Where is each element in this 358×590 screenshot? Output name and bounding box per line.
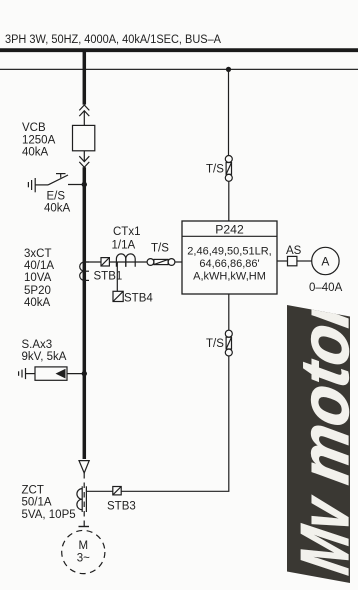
svg-text:VCB: VCB (22, 122, 46, 134)
arrow (filled) (56, 369, 66, 379)
wire (228, 181, 230, 221)
selector switch AS (288, 256, 297, 265)
terminal STB4 (113, 291, 123, 301)
wire: STB3 to ZCT (86, 490, 112, 492)
CT CTx1 (coil humps) (116, 254, 135, 267)
svg-text:2,46,49,50,51LR,: 2,46,49,50,51LR, (187, 246, 271, 258)
cable head (open triangle) (79, 461, 89, 473)
blade (48, 175, 68, 185)
svg-text:T/S: T/S (151, 243, 169, 255)
node: E/S junction (82, 182, 87, 187)
wire (83, 111, 85, 126)
test switch T/S (lower, vertical) (225, 330, 232, 356)
svg-text:10VA: 10VA (24, 272, 52, 284)
lower thin bus line (0, 68, 358, 70)
wire: main feeder (thick) (83, 167, 87, 459)
ground bars (27, 182, 29, 187)
svg-text:A,kWH,kW,HM: A,kWH,kW,HM (193, 271, 266, 283)
svg-text:3xCT: 3xCT (24, 248, 51, 260)
svg-text:3~: 3~ (77, 553, 90, 565)
node: arrester junction (82, 371, 87, 376)
withdrawable contact upper (chevrons up) (79, 105, 89, 116)
svg-text:50/1A: 50/1A (22, 497, 52, 509)
wire: down then left to STB3 (121, 356, 229, 491)
bus BUS-A (0, 48, 358, 52)
svg-text:40kA: 40kA (24, 297, 51, 309)
svg-text:T/S: T/S (206, 164, 224, 176)
wire (26, 373, 36, 375)
3xCT labels (24, 248, 54, 309)
wire: P242 bottom drop (228, 294, 230, 330)
ZCT arcs (77, 489, 82, 510)
node: metering tap junction (226, 67, 231, 72)
svg-text:40/1A: 40/1A (24, 260, 54, 272)
circuit breaker VCB box (73, 125, 95, 150)
wire: CT secondary (86, 261, 147, 263)
svg-text:T/S: T/S (206, 338, 224, 350)
wire (83, 151, 85, 162)
relay P242 box (182, 221, 277, 294)
earth switch E/S (28, 174, 84, 193)
svg-text:M: M (79, 540, 89, 552)
arrester box (35, 367, 67, 380)
CT 3xCT (arcs on main line) (80, 262, 89, 280)
surge arrester labels (22, 339, 67, 363)
svg-text:S.Ax3: S.Ax3 (22, 339, 53, 351)
VCB labels (22, 122, 56, 159)
svg-text:AS: AS (286, 245, 302, 257)
wire: VT/metering drop (228, 69, 230, 155)
terminal STB3 (113, 487, 121, 495)
svg-text:40kA: 40kA (44, 203, 71, 215)
svg-text:0–40A: 0–40A (309, 282, 343, 294)
svg-text:E/S: E/S (47, 191, 66, 203)
svg-text:STB1: STB1 (94, 271, 123, 283)
withdrawable contact lower (chevrons down) (79, 156, 89, 167)
wire: dashed cable run (83, 473, 85, 526)
wire to main line (67, 373, 84, 375)
motor M 3~ (62, 530, 105, 573)
svg-text:P242: P242 (215, 223, 244, 237)
CTx1 labels (112, 226, 141, 252)
test switch T/S (CT secondary, horizontal) (147, 259, 175, 266)
ammeter A (312, 247, 339, 274)
svg-text:64,66,86,86': 64,66,86,86' (199, 258, 259, 270)
wire: STB4 drop (116, 262, 118, 291)
cable termination bar (79, 526, 90, 528)
ZCT core lines (81, 486, 83, 512)
svg-text:3PH 3W, 50HZ, 4000A, 40kA/1SEC: 3PH 3W, 50HZ, 4000A, 40kA/1SEC, BUS–A (5, 32, 222, 46)
surge arrester S.Ax3 (19, 367, 85, 380)
svg-text:9kV, 5kA: 9kV, 5kA (22, 351, 67, 363)
wire: feeder drop (thick) (83, 50, 87, 104)
ZCT labels (22, 485, 76, 522)
svg-text:ZCT: ZCT (22, 485, 44, 497)
svg-text:5VA, 10P5: 5VA, 10P5 (22, 509, 76, 521)
svg-text:40kA: 40kA (22, 147, 49, 159)
E/S labels (44, 191, 71, 215)
svg-text:A: A (321, 255, 329, 269)
wire (175, 261, 182, 263)
fixed contact T (56, 173, 66, 175)
svg-text:1250A: 1250A (22, 135, 56, 147)
watermark banner Mv motor (286, 289, 358, 585)
svg-text:STB4: STB4 (124, 293, 153, 305)
ground bars (18, 371, 20, 376)
svg-text:1/1A: 1/1A (112, 240, 136, 252)
test switch T/S (upper, vertical) (225, 156, 232, 182)
wire (297, 260, 312, 262)
wire from ground (35, 184, 48, 186)
wire to main line (68, 184, 84, 186)
svg-text:STB3: STB3 (107, 501, 136, 513)
svg-text:motor: motor (286, 289, 358, 488)
wire: to AS (277, 260, 288, 262)
terminal STB1 (101, 258, 109, 266)
svg-text:CTx1: CTx1 (113, 226, 140, 238)
svg-text:5P20: 5P20 (24, 285, 51, 297)
